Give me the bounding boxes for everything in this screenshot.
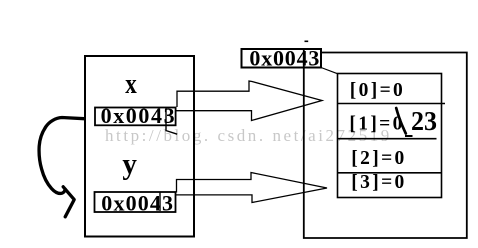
heap container box (right) xyxy=(304,50,467,238)
divider under [1] (stops short of right edge) xyxy=(338,138,437,140)
svg-text:0x0043: 0x0043 xyxy=(249,46,320,71)
connector line from label box to array corner xyxy=(321,68,338,74)
svg-text:y: y xyxy=(122,147,136,180)
hollow arrow from x to array xyxy=(176,81,322,121)
array box xyxy=(338,74,442,198)
address label box 0x0043 (top) xyxy=(242,49,322,68)
svg-text:[2]=0: [2]=0 xyxy=(351,148,406,169)
divider under [0] (overhangs right) xyxy=(338,103,446,105)
hand slash crossing out the 0 of [1] xyxy=(396,108,406,134)
small dash under crossed zero xyxy=(405,135,413,137)
svg-text:x: x xyxy=(125,69,137,100)
inner divider line in y address box xyxy=(159,193,161,212)
svg-text:[1]=0: [1]=0 xyxy=(349,113,404,134)
hollow arrow from y to array xyxy=(175,173,327,203)
hand-drawn curved arrow from x address to y address xyxy=(39,118,84,194)
address box of y: 0x0043 xyxy=(95,192,176,212)
divider under [2] xyxy=(338,172,442,174)
small dash above label box xyxy=(305,41,309,43)
svg-text:0x0043: 0x0043 xyxy=(101,190,174,215)
address box of x: 0x0043 xyxy=(95,108,176,126)
hand-drawn arrowhead xyxy=(63,187,74,217)
inner divider line in x address box xyxy=(166,108,177,135)
svg-text:[3]=0: [3]=0 xyxy=(351,172,406,193)
svg-text:0x0043: 0x0043 xyxy=(101,103,177,128)
svg-text:23: 23 xyxy=(411,106,437,136)
variable box (left container) xyxy=(85,56,194,237)
svg-text:[0]=0: [0]=0 xyxy=(350,80,405,101)
